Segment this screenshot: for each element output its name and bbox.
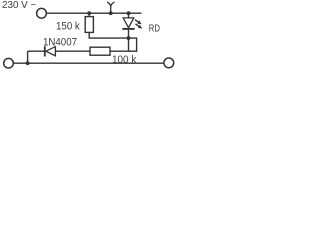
wire diode line (node C branch)	[28, 50, 90, 52]
R2 right lead	[110, 50, 137, 52]
resistor R2 100k (horizontal box)	[90, 47, 110, 55]
resistor R1 150k (vertical box)	[88, 13, 90, 16]
svg-text:RD: RD	[149, 24, 160, 35]
svg-text:1N4007: 1N4007	[43, 37, 77, 49]
LED D2 top lead	[128, 13, 130, 18]
wire from diode line down to bottom wire	[27, 51, 29, 63]
svg-text:230 V ~: 230 V ~	[2, 0, 36, 11]
LED light arrow 2	[136, 24, 140, 26]
LED D2 triangle	[123, 18, 134, 28]
junction dot at Y probe stem	[109, 11, 113, 15]
junction dot at R1 top	[87, 11, 91, 15]
wire node B (R1 bottom to LED bottom)	[89, 37, 129, 39]
terminal X3 (bottom right)	[164, 58, 174, 68]
diode D1 1N4007 (triangle pointing left)	[46, 47, 56, 56]
wire top (node A horizontal)	[46, 12, 141, 14]
LED D2 bottom lead	[128, 30, 130, 51]
svg-text:150 k: 150 k	[56, 20, 80, 32]
probe symbol Y (lamp contact fork)	[107, 2, 115, 13]
svg-text:100 k: 100 k	[112, 54, 137, 66]
wire bottom (node C horizontal)	[13, 62, 164, 64]
background	[0, 0, 180, 72]
diode D1 cathode bar	[44, 46, 46, 56]
junction dot bottom left	[26, 61, 30, 65]
terminal X2 (bottom left)	[4, 58, 14, 68]
wire loop right of node B	[129, 38, 137, 51]
junction dot node B	[127, 36, 131, 40]
LED D2 cathode bar	[122, 28, 134, 30]
terminal X1 (top left, mains L)	[37, 8, 47, 18]
LED light arrow 1	[135, 20, 139, 22]
junction dot at LED top	[127, 11, 131, 15]
